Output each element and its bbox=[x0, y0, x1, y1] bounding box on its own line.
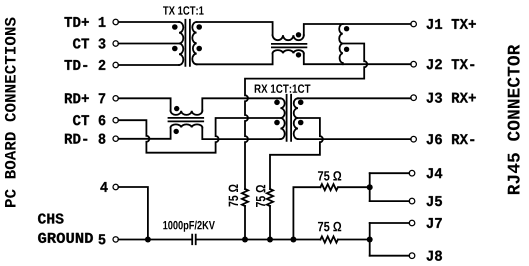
pin 8 terminal bbox=[113, 136, 118, 141]
J7 terminal bbox=[409, 220, 415, 226]
T2 primary phase dot upper bbox=[274, 100, 280, 106]
choke L1 core bbox=[272, 44, 307, 48]
J3 terminal bbox=[411, 95, 417, 101]
wire to J5 bbox=[370, 200, 410, 202]
J5 terminal bbox=[409, 198, 415, 204]
label J5 bbox=[427, 196, 442, 206]
pin 5 number bbox=[99, 234, 106, 244]
resistor R2 75 ohm bbox=[267, 189, 273, 206]
transformer T1 secondary winding bbox=[192, 22, 196, 64]
choke L3 bottom winding bbox=[171, 124, 203, 127]
pin 7 number bbox=[99, 93, 105, 103]
label GROUND bbox=[38, 233, 93, 243]
J2 terminal bbox=[411, 61, 417, 67]
junction dot J7/J8 bbox=[367, 237, 373, 243]
R2 label 75 ohm bbox=[256, 185, 266, 207]
transformer T2 secondary winding bbox=[294, 98, 298, 139]
wire L3 bottom to T2 bbox=[202, 128, 280, 140]
label TX 1CT:1 bbox=[163, 6, 204, 15]
pin 2 terminal bbox=[113, 62, 118, 67]
R4 label 75 ohm bbox=[318, 222, 341, 232]
J4 terminal bbox=[409, 170, 415, 176]
junction dot pin4 drop bbox=[145, 237, 151, 243]
label J7 bbox=[427, 218, 442, 228]
J1 terminal bbox=[411, 21, 417, 27]
pin 6 terminal bbox=[113, 118, 118, 123]
transformer T2 primary winding bbox=[280, 98, 284, 139]
wire L2 center tap return to R1 bbox=[245, 44, 367, 190]
wire T1 secondary top to choke L1 bbox=[197, 22, 273, 35]
wire T2 to J6 bbox=[298, 138, 411, 140]
label J6 bbox=[427, 134, 475, 144]
pin 5 terminal bbox=[113, 237, 118, 242]
pin 2 number bbox=[99, 60, 106, 70]
wire pin7 to choke L3 bbox=[118, 98, 170, 110]
T1 core bbox=[185, 20, 190, 66]
L3 top phase dot bbox=[174, 106, 179, 111]
wire L1 to J1 bbox=[304, 24, 411, 35]
capacitor C1 plates bbox=[192, 235, 196, 245]
T2 secondary phase dot lower bbox=[298, 120, 304, 126]
label J8 bbox=[427, 251, 442, 261]
left side label: PC BOARD CONNECTIONS bbox=[5, 18, 16, 207]
L1 top phase dot bbox=[296, 32, 301, 37]
wire T1 secondary bottom to choke L1 bbox=[197, 53, 273, 64]
wire T2 secondary center tap to R2 bbox=[270, 118, 323, 189]
transformer T1 primary winding bbox=[179, 22, 183, 65]
junction dot R1 bbox=[242, 237, 248, 243]
label RD+ bbox=[65, 93, 89, 103]
pin 3 terminal bbox=[113, 41, 118, 46]
chassis ground rail bbox=[118, 239, 320, 241]
T2 core bbox=[287, 95, 292, 141]
wire R2 to ground rail bbox=[269, 206, 271, 240]
wire R3 to node J4/J5 bbox=[339, 186, 370, 188]
wire pin6 to T2 center tap bbox=[118, 118, 280, 153]
L3 bottom phase dot bbox=[174, 129, 179, 134]
label J1 bbox=[427, 19, 476, 29]
pin 8 number bbox=[99, 134, 106, 144]
R1 label 75 ohm bbox=[229, 184, 239, 206]
L2 phase dot lower bbox=[344, 47, 349, 52]
choke L1 bottom winding bbox=[273, 50, 304, 53]
resistor R1 75 ohm bbox=[242, 189, 248, 206]
label TD+ bbox=[64, 17, 88, 27]
junction dot J4 branch bbox=[290, 237, 296, 243]
wire pin2 to T1 bbox=[118, 64, 179, 66]
L1 bottom phase dot bbox=[296, 52, 301, 57]
resistor R4 75 ohm bbox=[320, 236, 337, 242]
label J4 bbox=[427, 168, 443, 178]
T1 primary phase dot upper bbox=[172, 24, 178, 30]
wire T2 to J3 bbox=[298, 97, 411, 99]
pin 3 number bbox=[99, 38, 106, 48]
wire branch up to R3 bbox=[293, 187, 320, 239]
label RD- bbox=[65, 134, 87, 144]
wire pin3 to T1 center tap bbox=[118, 43, 179, 45]
node J7/J8 vertical bbox=[369, 223, 371, 256]
pin 6 number bbox=[99, 115, 106, 125]
choke L1 top winding bbox=[273, 35, 304, 40]
J8 terminal bbox=[409, 253, 415, 259]
label CHS bbox=[38, 213, 63, 223]
pin 4 number bbox=[100, 182, 107, 192]
pin 4 terminal bbox=[113, 184, 118, 189]
label TD- bbox=[64, 60, 87, 70]
wire pin1 to T1 bbox=[118, 21, 179, 23]
wire L3 top to T2 bbox=[202, 98, 280, 110]
right side label: RJ45 CONNECTOR bbox=[508, 45, 520, 194]
label RX 1CT:1CT bbox=[255, 84, 311, 93]
choke L3 core bbox=[169, 118, 204, 122]
node J4/J5 vertical bbox=[369, 173, 371, 201]
label CT bbox=[73, 38, 89, 48]
wire pin8 to choke L3 bbox=[118, 128, 170, 139]
T1 primary phase dot lower bbox=[172, 46, 178, 52]
resistor R3 75 ohm bbox=[320, 184, 337, 190]
label J2 bbox=[427, 59, 475, 69]
R3 label 75 ohm bbox=[318, 171, 341, 181]
pin 1 terminal bbox=[113, 19, 118, 24]
wire L1 to J2 rail bbox=[304, 53, 411, 64]
L2 phase dot upper bbox=[344, 26, 349, 31]
pin 1 number bbox=[99, 17, 106, 27]
wire R1 to ground rail bbox=[244, 206, 246, 240]
J6 terminal bbox=[411, 136, 417, 142]
autotransformer L2 winding bbox=[339, 24, 343, 64]
C1 label 1000pF/2KV bbox=[163, 221, 215, 232]
label CT bbox=[73, 115, 89, 125]
T2 secondary phase dot upper bbox=[298, 100, 304, 106]
junction dot J4/J5 bbox=[367, 184, 373, 190]
wire pin4 drop to ground rail bbox=[118, 187, 147, 240]
T2 primary phase dot lower bbox=[274, 120, 280, 126]
T1 secondary phase dot lower bbox=[196, 46, 202, 52]
junction dot R2 bbox=[267, 237, 273, 243]
label J3 bbox=[427, 93, 476, 103]
wire R4 to node J7/J8 bbox=[339, 239, 370, 241]
pin 7 terminal bbox=[113, 96, 118, 101]
wire to J4 bbox=[370, 172, 410, 174]
T1 secondary phase dot upper bbox=[196, 24, 202, 30]
wire to J7 bbox=[370, 222, 410, 224]
choke L3 top winding bbox=[171, 111, 203, 115]
wire to J8 bbox=[370, 255, 410, 257]
